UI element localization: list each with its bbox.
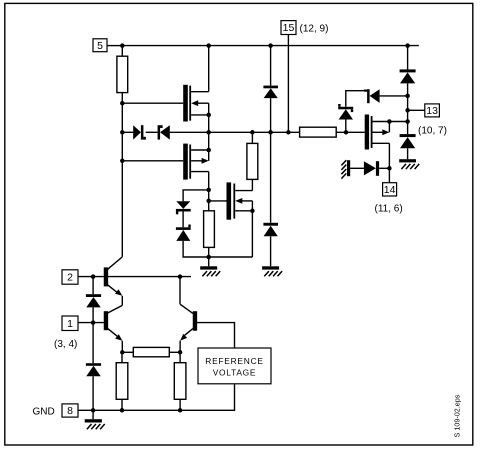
node top-left junction [120,43,125,48]
wire D5 to node [407,83,409,96]
svg-text:2: 2 [67,272,73,284]
pin box 5 [93,39,107,52]
resistor R7 [174,363,186,400]
wire Q2 emitter down [121,341,123,353]
node gnd x93 [91,408,96,413]
pin box 14 [383,183,397,196]
diode D1 [86,294,101,307]
chassis wall symbol [341,160,350,178]
diode D3 [133,125,146,139]
diode D2 [86,363,101,376]
node M2 drain [206,148,211,153]
wire R3 top stub [251,132,253,143]
node M1 source [206,113,211,118]
wire x93 to D1 [92,277,94,295]
node gnd x180 [178,408,183,413]
wire pin2 node line [78,276,191,278]
node zener branch tap [206,188,211,193]
node x407 y96 [405,94,410,99]
svg-text:1: 1 [67,318,73,330]
node Q4 collector tap [178,274,183,279]
wire pin15 down to rail2 [287,35,289,133]
svg-text:13: 13 [426,105,438,117]
pin box 13 [425,104,440,117]
wire pin1 lead [78,322,104,324]
zener Z2 [176,201,191,214]
wire gnd rail [78,384,235,411]
wire diode column upper [270,46,272,86]
svg-text:14: 14 [384,184,396,196]
wire Z1 to D6 [346,91,367,107]
svg-text:GND: GND [33,406,55,417]
wire to pin13 [408,109,425,111]
svg-text:(11, 6): (11, 6) [375,204,403,215]
wire D9 to ground [270,236,272,266]
svg-text:(3, 4): (3, 4) [54,339,77,350]
node top rail right [405,43,410,48]
wire zener branch bottom [183,241,252,257]
wire pin5 to top rail [107,45,122,47]
wire x407 vertical [407,96,409,134]
resistor R6 [116,363,128,400]
wire D1 to pin1 node [92,307,94,363]
svg-text:(12, 9): (12, 9) [300,24,329,35]
mosfet M2 [183,132,209,211]
wire top supply rail [122,45,419,47]
node rail2 left [120,130,125,135]
wire R5 left stub [122,351,133,353]
svg-text:VOLTAGE: VOLTAGE [213,368,257,378]
node rail2 x270 [268,130,273,135]
node M4 drain rail [405,119,410,124]
diode D7 [400,134,416,148]
resistor R2 [204,211,215,248]
node M4 drain bulk [387,119,392,124]
diode D9 [263,223,278,237]
wire D6 to node13 [380,95,408,97]
node M3 gate tap [206,199,211,204]
node gnd x122 [120,408,125,413]
ground gnd pin [85,410,105,429]
resistor R5 [133,347,169,356]
node rail2 x288 [286,130,291,135]
zener Z3 [176,225,191,241]
wire M1 gate lead [122,102,183,104]
wire D7 to ground [407,148,409,159]
svg-text:(10, 7): (10, 7) [418,125,447,136]
transistor Q1 [104,257,123,296]
wire Q1 emitter to Q2 collector [121,296,123,306]
node base Q1 [91,274,96,279]
wire diode column lower [270,132,272,223]
transistor Q2 [104,305,123,340]
resistor R4 [300,127,337,137]
node M4 source [387,166,392,171]
pin box 1 [62,316,78,331]
wire between zeners [182,212,184,228]
wire R6 stubs [121,352,123,410]
diode D6 [364,89,380,103]
node M1 gate tap [120,101,125,106]
reference voltage box U1 [198,348,271,384]
ground pin13 clamp [399,159,419,169]
svg-text:S 109-02.eps: S 109-02.eps [453,394,462,437]
node zener Z1 tap [344,130,349,135]
node base Q2 [91,320,96,325]
wire R2 bottom stub [208,247,210,257]
node middle ground junction [206,255,211,260]
diode D8 [263,86,278,99]
node diode column top [268,43,273,48]
wire Z1 bottom stub [345,120,347,133]
zener Z1 [338,104,353,120]
svg-text:5: 5 [97,40,103,52]
wire M2 gate lead [122,160,183,162]
svg-text:15: 15 [283,22,295,34]
wire zener branch top [183,190,209,201]
wire wall to K1 [350,167,364,169]
ground right-middle [262,266,282,276]
svg-text:REFERENCE: REFERENCE [205,356,263,366]
node R3 rail2 [250,130,255,135]
mosfet M1 [183,46,209,133]
mosfet M3 [227,179,253,257]
node left emitter junction [120,350,125,355]
svg-text:8: 8 [67,405,73,417]
node M2 gate tap [120,159,125,164]
wire R5 right stub [169,351,180,353]
wire K1 to node [379,167,389,169]
wire Q4 base to ref box [197,323,235,348]
wire R7 stubs [179,352,181,410]
diode K1 [364,161,379,176]
pin box 2 [62,270,78,284]
resistor R1 [117,56,128,92]
wire D8 to rail2 [270,98,272,132]
pin box 15 [281,21,296,35]
wire M3 gate lead [209,200,227,202]
node M1 drain to rail [206,43,211,48]
wire R4 to M4 gate [336,131,365,133]
transistor Q4 [180,304,197,341]
wire left vertical bus [121,93,123,257]
node pin13 tap [405,108,410,113]
wire D2 to gnd rail [92,376,94,410]
wire Q4 emitter down [179,341,181,353]
diode D5 [400,69,416,83]
wire Q4 collector up [179,277,181,305]
wire rail to D5 [407,46,409,70]
node rail2 x209 [206,130,211,135]
mosfet M4 [365,115,408,183]
wire rail2 segment c [170,131,300,133]
wire rail2 segment a [122,131,133,133]
node right emitter junction [178,350,183,355]
pin box 8 [62,404,78,417]
wire rail2 segment b [146,131,158,133]
ground middle [200,257,220,276]
wire stub rail to R1 [121,46,123,57]
resistor R3 [247,143,258,179]
diode D4 [158,125,170,139]
node M3 source [250,209,255,214]
